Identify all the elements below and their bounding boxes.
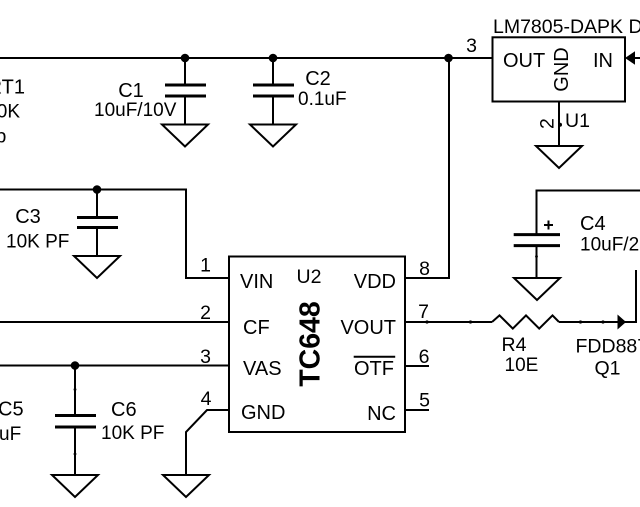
svg-text:Q1: Q1 xyxy=(595,358,621,380)
capacitor C5 (partial, off-page left) xyxy=(0,399,24,446)
wire GND pin4 to ground xyxy=(186,410,229,475)
wire CF net xyxy=(0,321,229,323)
svg-text:C3: C3 xyxy=(15,206,41,228)
svg-text:VAS: VAS xyxy=(243,358,282,380)
regulator U1 LM7805-DAPK body xyxy=(493,37,626,101)
svg-text:3: 3 xyxy=(200,346,211,368)
wire middle net to VIN xyxy=(0,190,229,279)
ground (C1) xyxy=(162,125,208,147)
svg-text:5: 5 xyxy=(419,390,430,412)
svg-text:0.1uF: 0.1uF xyxy=(298,89,347,110)
ground (U1 pin 2) xyxy=(536,146,582,168)
capacitor C4 (polarized) xyxy=(514,213,640,278)
svg-text:2: 2 xyxy=(537,118,559,129)
svg-text:C6: C6 xyxy=(111,399,137,421)
svg-text:10K: 10K xyxy=(0,102,20,123)
wire C4 top to drain xyxy=(537,191,640,236)
ground (C3) xyxy=(74,256,120,278)
wire VOUT to R4 xyxy=(405,321,492,323)
transistor Q1 FDD887 (partial, off-page right) xyxy=(576,270,640,380)
svg-text:C2: C2 xyxy=(305,68,331,90)
svg-text:2: 2 xyxy=(200,302,211,324)
capacitor C3 xyxy=(6,190,118,257)
gate bar xyxy=(635,270,637,323)
svg-text:TC648: TC648 xyxy=(295,301,327,387)
ground (U2 pin 4) xyxy=(163,475,209,497)
svg-text:IN: IN xyxy=(593,50,613,72)
svg-text:R4: R4 xyxy=(502,334,527,356)
svg-text:uF: uF xyxy=(0,424,21,445)
node junction (C1 / rail) xyxy=(181,54,190,63)
wire U1 pin2 down xyxy=(558,102,560,147)
svg-text:4: 4 xyxy=(201,388,212,410)
svg-text:FDD887: FDD887 xyxy=(576,336,640,358)
pin name OTF (with overline) xyxy=(354,357,396,380)
node junction (C6 / VAS net) xyxy=(71,361,80,370)
svg-text:p: p xyxy=(0,126,7,148)
svg-text:6: 6 xyxy=(419,346,430,368)
capacitor C2 xyxy=(253,58,347,125)
node junction (C3 / mid net) xyxy=(93,185,102,194)
IC U2 TC648 body xyxy=(229,257,405,433)
ground (C2) xyxy=(250,125,296,147)
plus sign of C4 xyxy=(544,221,553,230)
wire top net VDD rail xyxy=(0,57,493,59)
svg-text:8: 8 xyxy=(419,258,430,280)
resistor R4 xyxy=(425,315,582,376)
pin end dot (U1 pin2) xyxy=(558,123,562,127)
svg-text:C1: C1 xyxy=(118,80,144,102)
svg-text:LM7805-DAPK DC-DC: LM7805-DAPK DC-DC xyxy=(493,16,640,38)
wire IN pin right xyxy=(634,57,640,59)
svg-text:VDD: VDD xyxy=(354,271,396,293)
ground (C4) xyxy=(514,278,560,300)
ground (C6) xyxy=(52,475,98,497)
IN pin arrow xyxy=(625,51,635,64)
svg-text:U1: U1 xyxy=(565,110,590,132)
svg-text:GND: GND xyxy=(551,47,573,91)
svg-text:10K PF: 10K PF xyxy=(6,232,69,253)
svg-text:CF: CF xyxy=(243,317,270,339)
capacitor C1 xyxy=(94,58,206,125)
svg-text:10E: 10E xyxy=(505,355,539,376)
wire pin5 stub xyxy=(405,409,429,411)
svg-text:C5: C5 xyxy=(0,399,24,421)
svg-text:OTF: OTF xyxy=(354,358,394,380)
node junction (pin8 / rail) xyxy=(444,54,453,63)
svg-text:1: 1 xyxy=(200,255,211,277)
svg-text:3: 3 xyxy=(466,35,477,57)
wire pin8 VDD to rail xyxy=(405,58,449,278)
pin end dot (Q1 gate) xyxy=(601,320,604,323)
svg-text:10uF/10V: 10uF/10V xyxy=(94,100,177,121)
thermistor RT1 (partial, off-page left) xyxy=(0,77,25,148)
node junction (C2 / rail) xyxy=(269,54,278,63)
svg-text:VOUT: VOUT xyxy=(340,317,396,339)
svg-text:10uF/25V: 10uF/25V xyxy=(580,235,640,256)
svg-text:NC: NC xyxy=(367,403,396,425)
svg-text:7: 7 xyxy=(418,301,429,323)
svg-text:10K PF: 10K PF xyxy=(101,423,164,444)
svg-text:C4: C4 xyxy=(580,213,606,235)
gate arrow xyxy=(618,315,627,330)
svg-text:U2: U2 xyxy=(297,266,322,288)
svg-text:GND: GND xyxy=(241,402,285,424)
svg-text:VIN: VIN xyxy=(240,271,273,293)
svg-text:OUT: OUT xyxy=(503,50,545,72)
wire VAS net xyxy=(0,365,229,367)
capacitor C6 xyxy=(55,366,164,476)
wire pin6 stub xyxy=(405,365,429,367)
wire R4 to Q1 gate xyxy=(559,321,636,323)
svg-text:RT1: RT1 xyxy=(0,77,25,99)
